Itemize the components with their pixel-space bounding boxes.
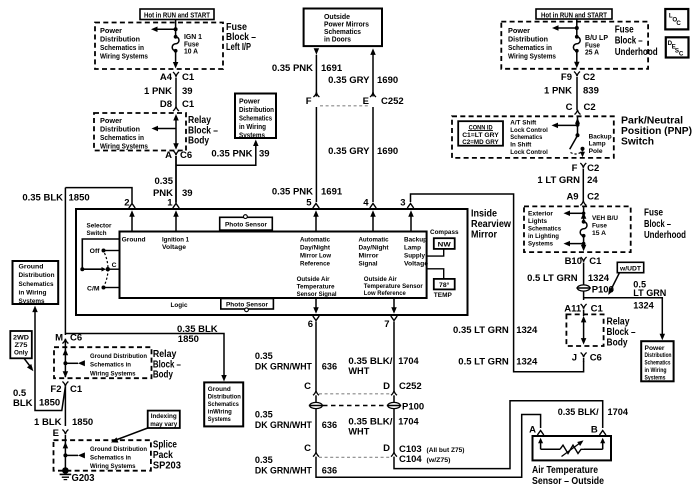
svg-text:Lights: Lights (528, 218, 547, 225)
svg-text:0.35 BLK/: 0.35 BLK/ (558, 407, 599, 417)
svg-text:DK GRN/WHT: DK GRN/WHT (255, 362, 312, 372)
svg-text:Wiring Systems: Wiring Systems (100, 52, 148, 61)
svg-text:Switch: Switch (87, 230, 107, 237)
svg-text:Body: Body (153, 368, 173, 380)
svg-text:Body: Body (188, 135, 209, 147)
svg-text:(All but Z75): (All but Z75) (427, 447, 465, 454)
svg-text:1324: 1324 (516, 357, 538, 368)
svg-text:C6: C6 (590, 352, 602, 363)
svg-text:(w/Z75): (w/Z75) (427, 457, 451, 464)
svg-text:Photo Sensor: Photo Sensor (225, 222, 267, 229)
svg-text:0.35 PNK: 0.35 PNK (272, 187, 313, 198)
svg-text:C1: C1 (182, 99, 195, 110)
svg-text:TEMP: TEMP (434, 292, 452, 299)
svg-text:Backup: Backup (404, 237, 427, 244)
svg-text:Power: Power (645, 345, 665, 352)
svg-text:BLK: BLK (13, 398, 33, 409)
svg-text:0.35 BLK/: 0.35 BLK/ (348, 417, 392, 427)
svg-text:Day/Night: Day/Night (359, 245, 390, 252)
svg-text:Systems: Systems (239, 130, 265, 139)
svg-text:Block –: Block – (615, 35, 643, 47)
svg-text:inWiring: inWiring (208, 408, 232, 415)
svg-text:1324: 1324 (588, 273, 610, 284)
svg-text:Underhood: Underhood (615, 46, 658, 58)
svg-text:Ground Distribution: Ground Distribution (90, 446, 147, 453)
svg-text:F9: F9 (561, 72, 572, 83)
svg-text:0.35: 0.35 (155, 176, 174, 187)
svg-text:2: 2 (124, 198, 129, 209)
svg-text:1690: 1690 (377, 146, 398, 157)
svg-text:Temperature: Temperature (297, 284, 335, 291)
svg-text:Systems: Systems (528, 240, 553, 247)
svg-text:25 A: 25 A (585, 48, 599, 57)
svg-text:0.35 LT GRN: 0.35 LT GRN (453, 325, 509, 336)
svg-text:SP203: SP203 (153, 459, 181, 471)
svg-text:Automatic: Automatic (300, 237, 330, 244)
svg-text:Ground Distribution: Ground Distribution (90, 353, 147, 360)
svg-text:Hot in RUN and START: Hot in RUN and START (541, 10, 607, 19)
svg-text:C: C (112, 262, 117, 269)
svg-text:1704: 1704 (398, 417, 419, 427)
svg-text:A: A (165, 150, 172, 161)
svg-text:in Wiring: in Wiring (645, 367, 667, 374)
svg-text:1324: 1324 (633, 301, 654, 311)
svg-text:Only: Only (14, 350, 28, 357)
svg-text:0.35: 0.35 (255, 410, 273, 420)
svg-text:C2: C2 (587, 163, 599, 174)
svg-text:Selector: Selector (87, 222, 112, 229)
svg-text:Off: Off (90, 248, 101, 255)
svg-text:Outside Air: Outside Air (297, 276, 330, 283)
svg-text:0.35 GRY: 0.35 GRY (328, 146, 370, 157)
svg-text:Backup: Backup (589, 133, 612, 140)
svg-text:Wiring Systems: Wiring Systems (100, 141, 148, 150)
svg-text:C: C (304, 381, 311, 392)
svg-text:C: C (304, 443, 311, 454)
svg-text:D: D (383, 443, 390, 454)
svg-text:1850: 1850 (69, 192, 90, 203)
svg-text:WHT: WHT (348, 366, 369, 376)
svg-text:Body: Body (607, 336, 628, 348)
svg-text:1691: 1691 (321, 63, 343, 74)
svg-text:Schematics: Schematics (208, 401, 239, 408)
svg-text:F2: F2 (50, 384, 61, 395)
svg-text:D8: D8 (160, 99, 172, 110)
svg-text:C2: C2 (584, 102, 596, 113)
svg-text:Schematics in: Schematics in (90, 362, 131, 369)
svg-text:3: 3 (400, 198, 405, 209)
svg-text:0.35 PNK: 0.35 PNK (272, 63, 313, 74)
svg-text:Sensor – Outside: Sensor – Outside (532, 475, 604, 487)
svg-text:1704: 1704 (398, 356, 419, 366)
svg-text:A9: A9 (566, 191, 578, 202)
svg-text:Ground: Ground (208, 386, 231, 393)
svg-text:M: M (55, 332, 63, 343)
svg-text:Reference: Reference (300, 261, 330, 268)
svg-text:Ground: Ground (19, 264, 44, 271)
svg-text:LT GRN: LT GRN (633, 288, 666, 298)
svg-text:Wiring Systems: Wiring Systems (90, 463, 136, 470)
svg-text:1 LT GRN: 1 LT GRN (537, 175, 580, 186)
svg-text:78°: 78° (439, 281, 450, 289)
svg-text:Schematics: Schematics (528, 225, 561, 232)
svg-text:1 BLK: 1 BLK (34, 417, 62, 428)
svg-text:C1=LT GRY: C1=LT GRY (462, 132, 499, 139)
svg-text:15 A: 15 A (592, 230, 606, 237)
svg-text:39: 39 (259, 149, 270, 160)
svg-text:Distribution: Distribution (208, 393, 241, 400)
svg-text:Voltage: Voltage (162, 244, 186, 251)
svg-text:1324: 1324 (516, 325, 538, 336)
svg-text:A: A (529, 424, 536, 435)
svg-text:B10: B10 (565, 256, 582, 267)
svg-text:In Shift: In Shift (510, 142, 532, 149)
svg-text:Fuse: Fuse (592, 223, 607, 230)
svg-text:C/M: C/M (87, 285, 100, 292)
svg-text:39: 39 (182, 86, 193, 97)
svg-text:E: E (53, 428, 59, 439)
svg-text:1850: 1850 (178, 334, 199, 345)
svg-text:C2: C2 (587, 191, 599, 202)
svg-text:C2: C2 (583, 72, 595, 83)
svg-text:Z75: Z75 (15, 342, 28, 349)
svg-text:Left I/P: Left I/P (226, 41, 251, 53)
svg-text:Pole: Pole (589, 148, 603, 155)
svg-text:in Doors: in Doors (324, 35, 351, 44)
svg-text:39: 39 (182, 188, 193, 199)
svg-text:Systems: Systems (19, 298, 45, 305)
svg-text:Wiring Systems: Wiring Systems (508, 52, 556, 61)
svg-text:Underhood: Underhood (644, 229, 686, 241)
svg-text:Wiring Systems: Wiring Systems (90, 370, 136, 377)
svg-text:Photo Sensor: Photo Sensor (226, 302, 268, 309)
svg-text:F: F (306, 96, 312, 107)
svg-text:C2=MD GRY: C2=MD GRY (462, 139, 499, 146)
svg-text:VEH B/U: VEH B/U (592, 215, 618, 222)
svg-text:Distribution: Distribution (19, 272, 55, 279)
svg-text:Logic: Logic (171, 302, 188, 309)
svg-text:C: C (566, 102, 573, 113)
svg-text:1 PNK: 1 PNK (544, 86, 572, 97)
svg-text:Compass: Compass (430, 229, 459, 236)
svg-text:Systems: Systems (208, 416, 231, 423)
svg-text:636: 636 (322, 420, 337, 430)
svg-text:1 PNK: 1 PNK (144, 86, 172, 97)
svg-text:Low Reference: Low Reference (364, 290, 406, 297)
svg-text:Schematics: Schematics (645, 360, 671, 367)
svg-text:A4: A4 (160, 72, 173, 83)
svg-text:0.35 PNK: 0.35 PNK (211, 149, 252, 160)
svg-text:G203: G203 (72, 472, 95, 484)
svg-text:Lock Control: Lock Control (510, 149, 548, 156)
svg-text:1850: 1850 (39, 397, 60, 408)
svg-text:Fuse: Fuse (615, 23, 634, 35)
svg-text:Switch: Switch (621, 136, 654, 148)
svg-text:C: C (679, 51, 684, 58)
svg-text:1: 1 (167, 198, 173, 209)
svg-text:Block –: Block – (644, 218, 671, 230)
svg-text:7: 7 (384, 319, 389, 330)
svg-text:C1: C1 (182, 72, 195, 83)
svg-text:0.35 BLK: 0.35 BLK (22, 192, 63, 203)
svg-text:Hot in RUN and START: Hot in RUN and START (144, 11, 210, 20)
svg-text:Lock Control: Lock Control (510, 127, 548, 134)
svg-text:F: F (572, 163, 578, 174)
svg-text:A11: A11 (564, 303, 582, 314)
svg-text:in Lighting: in Lighting (528, 233, 559, 240)
svg-text:Indexing: Indexing (151, 413, 177, 420)
svg-text:Signal: Signal (359, 261, 378, 268)
svg-text:Supply: Supply (404, 253, 425, 260)
svg-text:Systems: Systems (645, 374, 666, 381)
svg-text:C6: C6 (180, 150, 192, 161)
svg-text:Fuse: Fuse (644, 207, 663, 219)
svg-text:Distribution: Distribution (645, 352, 672, 359)
svg-text:Voltage: Voltage (404, 261, 428, 268)
svg-text:Temperature Sensor: Temperature Sensor (364, 283, 423, 290)
svg-text:WHT: WHT (348, 426, 369, 436)
svg-text:4: 4 (363, 198, 369, 209)
svg-text:Ground: Ground (122, 236, 146, 243)
svg-text:C252: C252 (381, 96, 404, 107)
svg-text:6: 6 (308, 319, 313, 330)
svg-text:636: 636 (322, 465, 337, 475)
svg-text:C1: C1 (591, 303, 604, 314)
svg-text:C104: C104 (399, 454, 422, 465)
svg-text:Schematics: Schematics (19, 281, 54, 288)
svg-text:Schematics in: Schematics in (90, 455, 131, 462)
svg-text:Automatic: Automatic (359, 237, 389, 244)
svg-text:0.35 GRY: 0.35 GRY (328, 75, 370, 86)
svg-text:1690: 1690 (377, 75, 398, 86)
svg-text:Mirror: Mirror (359, 253, 379, 260)
svg-text:Schematics: Schematics (510, 134, 542, 141)
svg-text:C1: C1 (70, 384, 83, 395)
svg-text:5: 5 (306, 198, 312, 209)
svg-text:1850: 1850 (72, 417, 93, 428)
svg-text:Sensor Signal: Sensor Signal (297, 291, 337, 298)
svg-text:1704: 1704 (608, 407, 629, 417)
svg-text:2WD: 2WD (13, 335, 29, 342)
svg-text:839: 839 (583, 86, 599, 97)
svg-text:C: C (676, 20, 681, 27)
svg-text:10 A: 10 A (184, 47, 198, 56)
svg-text:D: D (383, 381, 390, 392)
svg-text:24: 24 (587, 175, 598, 186)
svg-text:A/T Shift: A/T Shift (510, 120, 537, 127)
svg-text:DK GRN/WHT: DK GRN/WHT (255, 465, 312, 475)
svg-text:DK GRN/WHT: DK GRN/WHT (255, 420, 312, 430)
svg-text:1691: 1691 (321, 187, 343, 198)
svg-text:B: B (591, 424, 598, 435)
svg-text:0.35: 0.35 (255, 351, 273, 361)
svg-text:0.35: 0.35 (255, 455, 273, 465)
svg-text:Mirror Low: Mirror Low (300, 253, 332, 260)
svg-text:636: 636 (322, 362, 337, 372)
svg-text:Mirror: Mirror (471, 228, 497, 240)
svg-text:J: J (572, 352, 577, 363)
svg-text:0.5 LT GRN: 0.5 LT GRN (458, 357, 509, 368)
svg-text:Day/Night: Day/Night (300, 245, 331, 252)
svg-text:Lamp: Lamp (404, 245, 421, 252)
svg-text:0.5 LT GRN: 0.5 LT GRN (527, 273, 578, 284)
svg-text:Exterior: Exterior (528, 210, 553, 217)
svg-text:0.35 BLK/: 0.35 BLK/ (348, 356, 392, 366)
svg-text:in Wiring: in Wiring (19, 289, 47, 296)
svg-text:Ignition 1: Ignition 1 (162, 236, 189, 243)
svg-text:Lamp: Lamp (589, 141, 606, 148)
svg-text:may vary: may vary (150, 421, 177, 428)
svg-text:P100: P100 (402, 401, 424, 412)
svg-text:C252: C252 (399, 381, 422, 392)
svg-text:C1: C1 (589, 256, 602, 267)
svg-text:NW: NW (438, 241, 452, 248)
svg-text:w/UDT: w/UDT (619, 266, 642, 273)
